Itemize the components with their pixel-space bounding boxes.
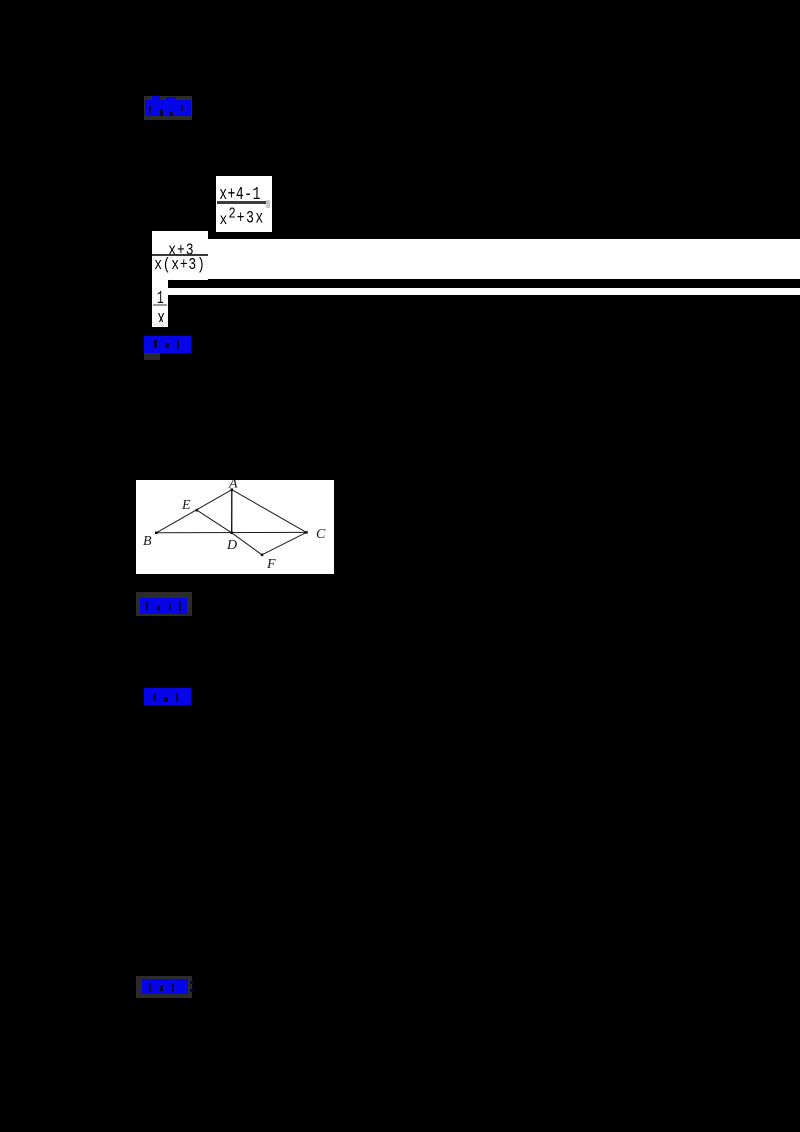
label 【分析】 highlighted blue [136, 592, 192, 616]
wire segment ED [197, 510, 232, 533]
geometry figure image [136, 480, 334, 574]
node B [155, 532, 158, 535]
formula image: 1/x [152, 280, 168, 327]
wire median AD [231, 490, 233, 533]
svg-text:C: C [316, 527, 326, 542]
white strip row 3 [168, 288, 800, 296]
denominator x [157, 308, 165, 329]
svg-text:A: A [228, 480, 238, 492]
svg-text:E: E [181, 498, 191, 513]
gray handle artifact [266, 200, 270, 208]
wire side AB [156, 490, 232, 533]
svg-text:F: F [266, 557, 276, 572]
wire segment FC [262, 532, 306, 554]
wire side AC [232, 490, 307, 533]
formula image: (x+4-1)/(x^2+3x) [216, 176, 272, 232]
svg-text:D: D [226, 538, 237, 553]
fraction bar [152, 254, 208, 256]
denominator x(x+3) [154, 256, 205, 273]
numerator 1 [157, 289, 164, 307]
node D [230, 532, 233, 535]
fraction bar [217, 201, 266, 204]
node C [305, 531, 308, 534]
label 【点评】 highlighted blue [136, 976, 192, 998]
node F [261, 554, 264, 557]
fraction bar [153, 304, 167, 306]
node A [231, 488, 234, 491]
label 【解答】 highlighted blue [144, 688, 191, 705]
formula image: (x+3)/(x(x+3)) [152, 231, 208, 280]
wire segment DF [232, 533, 262, 555]
numerator x+4-1 [219, 185, 261, 203]
wire side BC [156, 531, 306, 533]
white strip row 2 [208, 239, 800, 279]
denominator x^2+3x [220, 212, 228, 228]
node E [196, 509, 199, 512]
svg-text:B: B [143, 534, 152, 549]
label 【点评】 highlighted blue [144, 336, 191, 353]
label 【解析】 highlighted blue [144, 96, 192, 120]
numerator x+3 [168, 242, 194, 258]
